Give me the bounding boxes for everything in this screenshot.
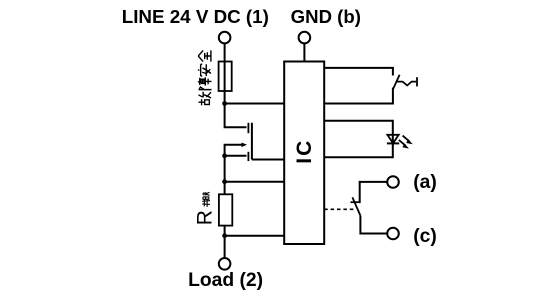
junction dot load node	[222, 233, 227, 238]
wire terminal a to contact	[360, 182, 388, 202]
wire output contact return to IC	[324, 88, 393, 104]
svg-text:(a): (a)	[413, 172, 437, 193]
relay contact blade a-c	[352, 197, 360, 215]
wire IC to output contact top	[324, 68, 393, 76]
terminal circle (a)	[387, 176, 399, 188]
resistor R parallel body	[219, 194, 232, 225]
fuse F1 (fail-safe)	[219, 62, 232, 92]
wire IC to LED	[324, 121, 393, 144]
junction dot mid node	[222, 179, 227, 184]
LED emission arrow 1	[403, 136, 410, 142]
label fail-safe CJK: 障	[198, 77, 212, 89]
wire mid node to IC	[225, 181, 285, 183]
svg-text:GND (b): GND (b)	[291, 6, 361, 27]
svg-text:Load (2): Load (2)	[188, 270, 263, 291]
terminal circle LINE (1)	[219, 32, 231, 44]
label fail-safe CJK: 安	[198, 64, 211, 76]
LED D1 triangle	[387, 135, 398, 143]
svg-text:(c): (c)	[413, 226, 437, 247]
wire rail to transistor drain lead	[225, 104, 247, 128]
LED D1 cathode bar	[387, 142, 399, 144]
svg-text:IC: IC	[293, 139, 316, 164]
actuator end bar	[416, 77, 418, 86]
label R subscript CJK: 联	[202, 192, 209, 200]
transistor Q1 source lead	[225, 155, 247, 157]
wire GND terminal to IC	[303, 43, 305, 61]
IC block U1	[284, 62, 324, 245]
wire contact to terminal c	[360, 216, 387, 234]
svg-text:R: R	[194, 210, 217, 225]
label R subscript CJK: 并	[202, 199, 210, 207]
wire load node to Load terminal	[224, 236, 226, 258]
transistor Q1 channel bar	[251, 123, 253, 160]
contact seat foot	[351, 201, 361, 203]
LED emission arrow 2	[399, 140, 406, 146]
label fail-safe CJK: 全	[198, 50, 211, 61]
actuator zigzag	[396, 82, 416, 86]
wire gate node down	[224, 156, 226, 182]
transistor Q1 drain contact bar	[247, 123, 249, 133]
junction dot below fuse	[222, 101, 227, 106]
wire LED cathode return to IC	[324, 143, 393, 157]
terminal circle GND (b)	[299, 32, 311, 44]
wire mid node to resistor	[224, 182, 226, 195]
output contact blade	[393, 75, 399, 89]
wire junction to IC pin 1	[225, 103, 285, 105]
wire channel to IC	[252, 159, 284, 161]
junction dot gate node	[222, 153, 227, 158]
wire load node to IC	[225, 235, 285, 237]
dashed actuation link	[324, 208, 355, 210]
terminal circle (c)	[387, 228, 399, 240]
terminal circle Load (2)	[219, 258, 231, 270]
label fail-safe CJK: 故	[198, 92, 210, 105]
wire resistor to load node	[224, 226, 226, 236]
transistor Q1 source contact bar	[247, 152, 249, 161]
wire LINE terminal to fuse and junction	[224, 43, 226, 103]
svg-text:LINE 24 V DC (1): LINE 24 V DC (1)	[122, 6, 269, 27]
transistor Q1 gate arrow	[225, 145, 242, 156]
